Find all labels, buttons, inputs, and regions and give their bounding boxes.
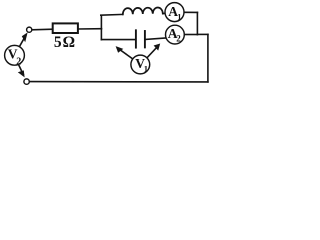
svg-text:2: 2	[16, 56, 21, 67]
svg-text:5Ω: 5Ω	[54, 34, 76, 51]
svg-text:1: 1	[177, 12, 181, 22]
svg-text:2: 2	[176, 34, 181, 44]
svg-text:1: 1	[144, 64, 148, 74]
